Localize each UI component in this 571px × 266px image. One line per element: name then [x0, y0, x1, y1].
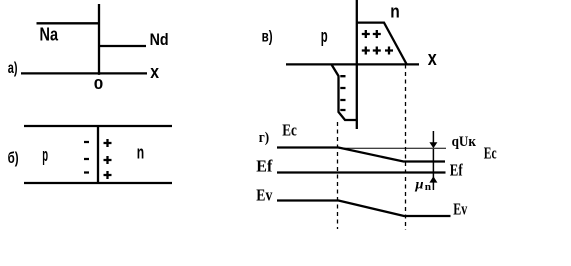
- svg-text:μ: μ: [414, 177, 423, 192]
- svg-text:0: 0: [94, 76, 104, 93]
- Ec reference thin line: [339, 147, 447, 149]
- acceptor level line Na: [37, 22, 101, 24]
- plus charge row (panel b): [104, 139, 112, 179]
- dashed vertical line right: [405, 65, 407, 231]
- label Ec left: [282, 120, 297, 139]
- panel label a): [8, 60, 18, 77]
- svg-text:Ef: Ef: [256, 157, 272, 176]
- valence band Ev: [277, 201, 451, 217]
- minus charges (panel v): [340, 76, 345, 110]
- dashed vertical line left: [337, 122, 339, 229]
- panel label g): [259, 130, 269, 146]
- label p (panel v): [321, 26, 328, 46]
- svg-text:Ev: Ev: [453, 200, 467, 219]
- top boundary line (panel b): [24, 125, 172, 127]
- label n (panel v): [390, 1, 400, 21]
- label Ev left: [256, 185, 272, 204]
- svg-text:Na: Na: [40, 25, 59, 45]
- label n (panel b): [137, 143, 144, 163]
- conduction band Ec: [277, 148, 445, 162]
- panel label v): [262, 28, 273, 45]
- svg-text:qUк: qUк: [452, 134, 477, 150]
- minus charge row (panel b): [84, 142, 89, 173]
- svg-text:n: n: [390, 1, 400, 21]
- positive space-charge region outline: [357, 23, 407, 64]
- svg-text:г): г): [259, 130, 269, 146]
- svg-text:p: p: [42, 145, 48, 165]
- svg-text:Ef: Ef: [450, 161, 463, 180]
- svg-text:Ec: Ec: [484, 144, 497, 163]
- bottom boundary line (panel b): [24, 182, 172, 184]
- x axis (panel a): [21, 72, 147, 74]
- svg-text:в): в): [262, 28, 273, 45]
- x axis (panel v): [286, 63, 419, 65]
- potential arrow (qUk / mu-n): [432, 131, 434, 190]
- junction vertical line (panel v): [356, 0, 358, 129]
- junction line (panel b): [97, 125, 99, 184]
- svg-text:б): б): [8, 150, 19, 167]
- label Ef left: [256, 157, 272, 176]
- origin label 0: [94, 76, 104, 93]
- plus charges row 2 (panel v): [362, 47, 393, 55]
- junction vertical line (panel a): [98, 4, 100, 75]
- svg-text:x: x: [150, 62, 159, 82]
- label p (panel b): [42, 145, 48, 165]
- svg-text:p: p: [321, 26, 328, 46]
- label Nd: [150, 30, 169, 49]
- svg-text:а): а): [8, 60, 18, 77]
- plus charges row 1 (panel v): [362, 30, 381, 38]
- panel label b): [8, 150, 19, 167]
- donor level line Nd: [99, 45, 146, 47]
- label mu-n: [414, 177, 431, 193]
- label Ef right: [450, 161, 463, 180]
- svg-text:n: n: [425, 182, 431, 193]
- svg-text:x: x: [428, 48, 437, 70]
- axis label x (panel v): [428, 48, 437, 70]
- label Na: [40, 25, 59, 45]
- label qUk: [452, 134, 477, 150]
- label Ev right: [453, 200, 467, 219]
- label Ec right: [484, 144, 497, 163]
- svg-text:Nd: Nd: [150, 30, 169, 49]
- Fermi level Ef: [277, 171, 446, 173]
- axis label x (panel a): [150, 62, 159, 82]
- svg-text:Ec: Ec: [282, 120, 297, 139]
- svg-text:n: n: [137, 143, 144, 163]
- svg-text:Ev: Ev: [256, 185, 272, 204]
- negative space-charge region outline: [332, 65, 357, 121]
